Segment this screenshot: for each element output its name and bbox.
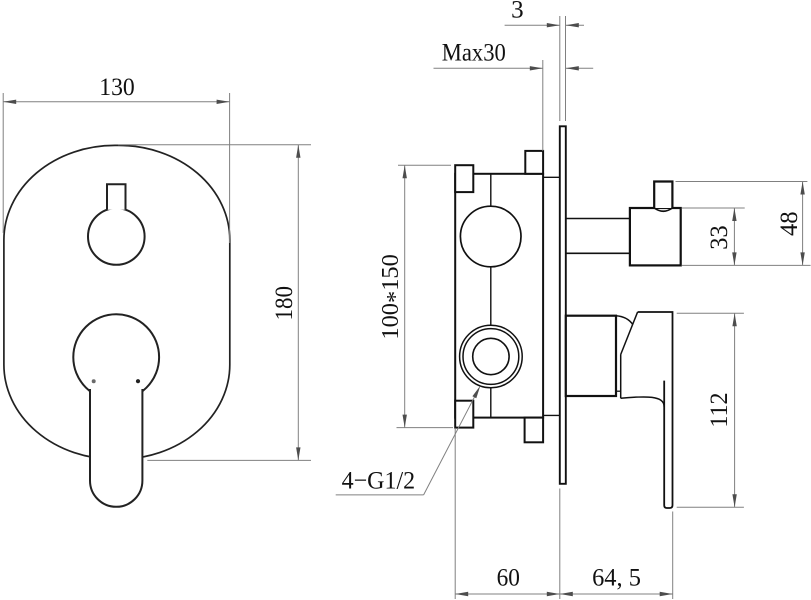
svg-text:48: 48 — [776, 211, 803, 236]
svg-text:130: 130 — [99, 74, 135, 101]
svg-text:33: 33 — [706, 225, 733, 249]
svg-text:Max30: Max30 — [442, 40, 506, 67]
svg-text:3: 3 — [511, 0, 524, 24]
svg-text:112: 112 — [706, 392, 733, 427]
svg-text:180: 180 — [271, 286, 298, 321]
svg-text:4−G1/2: 4−G1/2 — [342, 468, 416, 495]
svg-text:60: 60 — [497, 565, 520, 592]
svg-text:64, 5: 64, 5 — [592, 565, 641, 592]
